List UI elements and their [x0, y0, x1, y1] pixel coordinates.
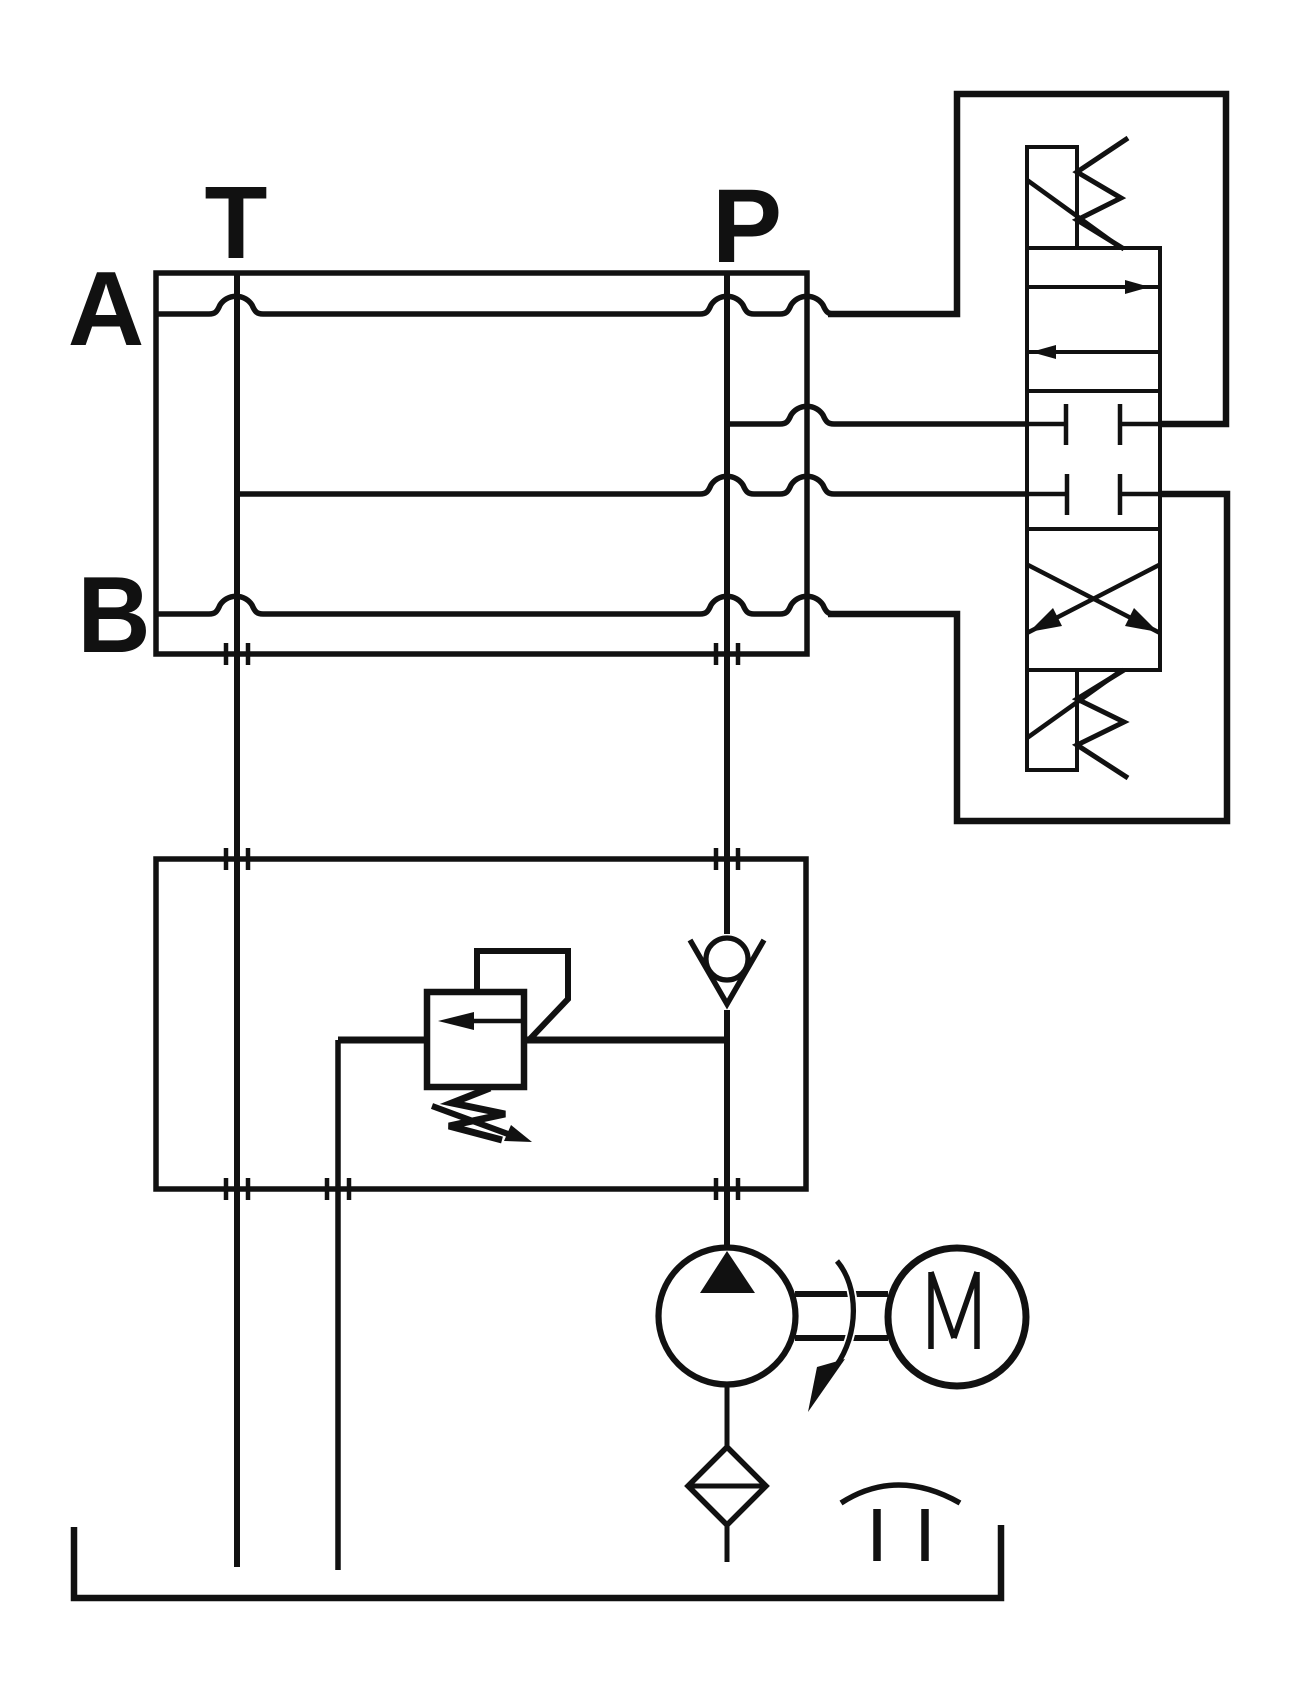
- wire thick loop A to valve top: [828, 94, 1226, 424]
- wire filter to tank: [725, 1525, 730, 1562]
- motor M1 circle: [888, 1248, 1026, 1386]
- relief valve RV box: [427, 992, 524, 1087]
- shaft lines: [795, 1294, 888, 1338]
- solenoid S1 top box: [1027, 147, 1077, 248]
- svg-text:T: T: [205, 165, 268, 280]
- svg-text:P: P: [712, 168, 782, 285]
- wire thick loop B to valve bottom: [828, 494, 1227, 821]
- relief valve RV right connection: [524, 1037, 727, 1044]
- breather ticks: [877, 1509, 925, 1561]
- wire P vertical line: [724, 273, 730, 1248]
- relief valve RV adjust arrow: [432, 1106, 508, 1134]
- breaks ticks lower block bottom at P: [716, 1178, 738, 1200]
- spring bottom: [1077, 670, 1128, 778]
- breaks ticks upper block bottom at T: [226, 643, 248, 665]
- rotation arrow arc: [836, 1261, 853, 1366]
- wire B port line with bridge arcs: [156, 596, 834, 614]
- breaks ticks upper block bottom at P: [716, 643, 738, 665]
- wire relief drain vertical: [335, 1040, 341, 1570]
- rotation arrow head: [808, 1359, 845, 1412]
- valve V1 crossed arrow 1 bottom box: [1028, 565, 1160, 633]
- svg-text:A: A: [68, 250, 145, 368]
- check valve CV circle: [706, 938, 748, 980]
- solenoid S2 bottom box: [1027, 670, 1077, 770]
- tank outline: [74, 1525, 1001, 1598]
- pump P1 circle: [659, 1248, 796, 1385]
- valve V1 arrow right in top box: [1027, 285, 1160, 289]
- check valve CV seat: [690, 940, 764, 1004]
- relief valve RV arrow: [470, 1019, 524, 1024]
- valve V1 blocked port symbols center box: [1027, 404, 1066, 445]
- breather cap arc: [841, 1485, 960, 1503]
- solenoid S1 diagonal: [1027, 180, 1121, 248]
- upper manifold block outline: [156, 273, 807, 654]
- solenoid S2 diagonal: [1027, 670, 1122, 738]
- valve V1 crossed arrow 2 bottom box: [1027, 565, 1159, 633]
- wire P to valve with bridge arc: [727, 406, 1027, 424]
- breaks ticks lower block bottom at T: [226, 1178, 248, 1200]
- pump P1 triangle: [700, 1251, 755, 1293]
- spring top: [1077, 138, 1128, 249]
- wire T to valve with bridge arcs: [237, 476, 1027, 494]
- valve V1 body boxes: [1027, 248, 1160, 670]
- breaks ticks lower block top at T: [226, 848, 248, 870]
- relief valve RV pilot line: [477, 951, 568, 1040]
- relief valve RV left connection: [338, 1037, 427, 1044]
- filter F1 element line: [688, 1484, 766, 1489]
- wire T vertical line: [234, 273, 240, 1567]
- wire pump to filter: [725, 1384, 730, 1447]
- filter F1 diamond: [688, 1447, 766, 1525]
- breaks ticks lower block bottom at drain: [327, 1178, 349, 1200]
- svg-text:B: B: [77, 555, 150, 676]
- wire A port line with bridge arcs: [156, 296, 834, 314]
- valve V1 arrow left in top box: [1027, 350, 1160, 354]
- lower power-unit block outline: [156, 859, 806, 1189]
- relief valve RV spring: [449, 1088, 505, 1140]
- motor M1 letter: [931, 1272, 977, 1349]
- breaks ticks lower block top at P: [716, 848, 738, 870]
